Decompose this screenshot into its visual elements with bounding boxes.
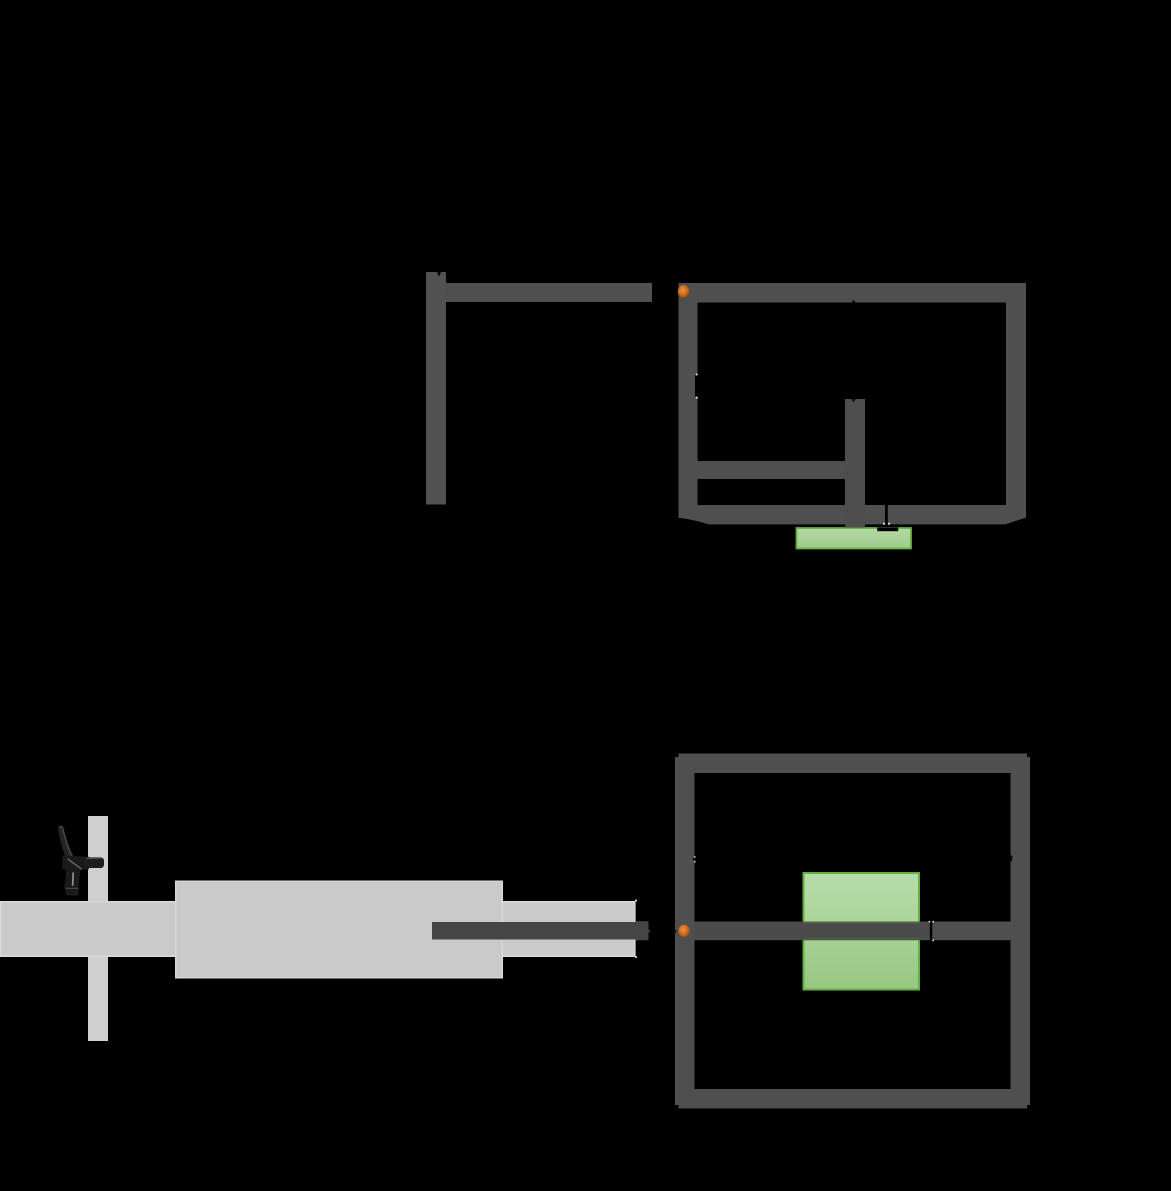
pivot ball (top figure) <box>678 285 690 298</box>
pivot ball (bottom figure) <box>678 925 689 938</box>
black strip over sample plate top <box>877 527 898 531</box>
support rod (vertical, with V-notch at top) <box>426 272 446 505</box>
frame right edge <box>1011 757 1031 1105</box>
sample plate (green, top figure) <box>797 528 912 549</box>
scan shaft bar (inside frame) <box>694 922 930 941</box>
nick under frame top edge <box>852 300 856 303</box>
frame top edge <box>679 283 1027 303</box>
shaft tip <box>636 921 649 940</box>
frame bottom edge with chamfered corners <box>679 505 1027 524</box>
inner vertical bar (holder) <box>845 399 865 528</box>
nick at holder top <box>852 399 856 403</box>
frame right edge <box>1006 283 1026 518</box>
sample block (green square) <box>804 873 920 990</box>
probe body block <box>175 881 503 979</box>
long horizontal rail <box>0 901 636 957</box>
notch in right edge inner side <box>1011 855 1013 862</box>
frame left edge <box>675 757 695 1105</box>
slit in frame bottom edge <box>885 505 888 524</box>
specks at slit corners <box>929 921 931 923</box>
blend strips where bar crosses sample block <box>803 922 920 924</box>
frame left edge <box>679 283 698 518</box>
clamp lever (small black hardware) <box>58 826 104 896</box>
vertical post <box>88 816 108 1041</box>
nick on left edge outer side at pivot height <box>675 930 677 933</box>
probe shaft (dark) <box>432 922 636 940</box>
shaft tip nub <box>649 930 651 933</box>
inner horizontal bar <box>697 461 865 479</box>
frame bottom edge <box>679 1089 1028 1109</box>
notch in left edge inner side <box>692 857 695 860</box>
horizontal arm bar <box>446 283 652 302</box>
frame top edge <box>679 754 1028 774</box>
frame stub right of slit <box>932 922 1011 941</box>
notch in frame left edge inner side <box>695 375 698 397</box>
white speck at rail end corner <box>635 900 637 902</box>
